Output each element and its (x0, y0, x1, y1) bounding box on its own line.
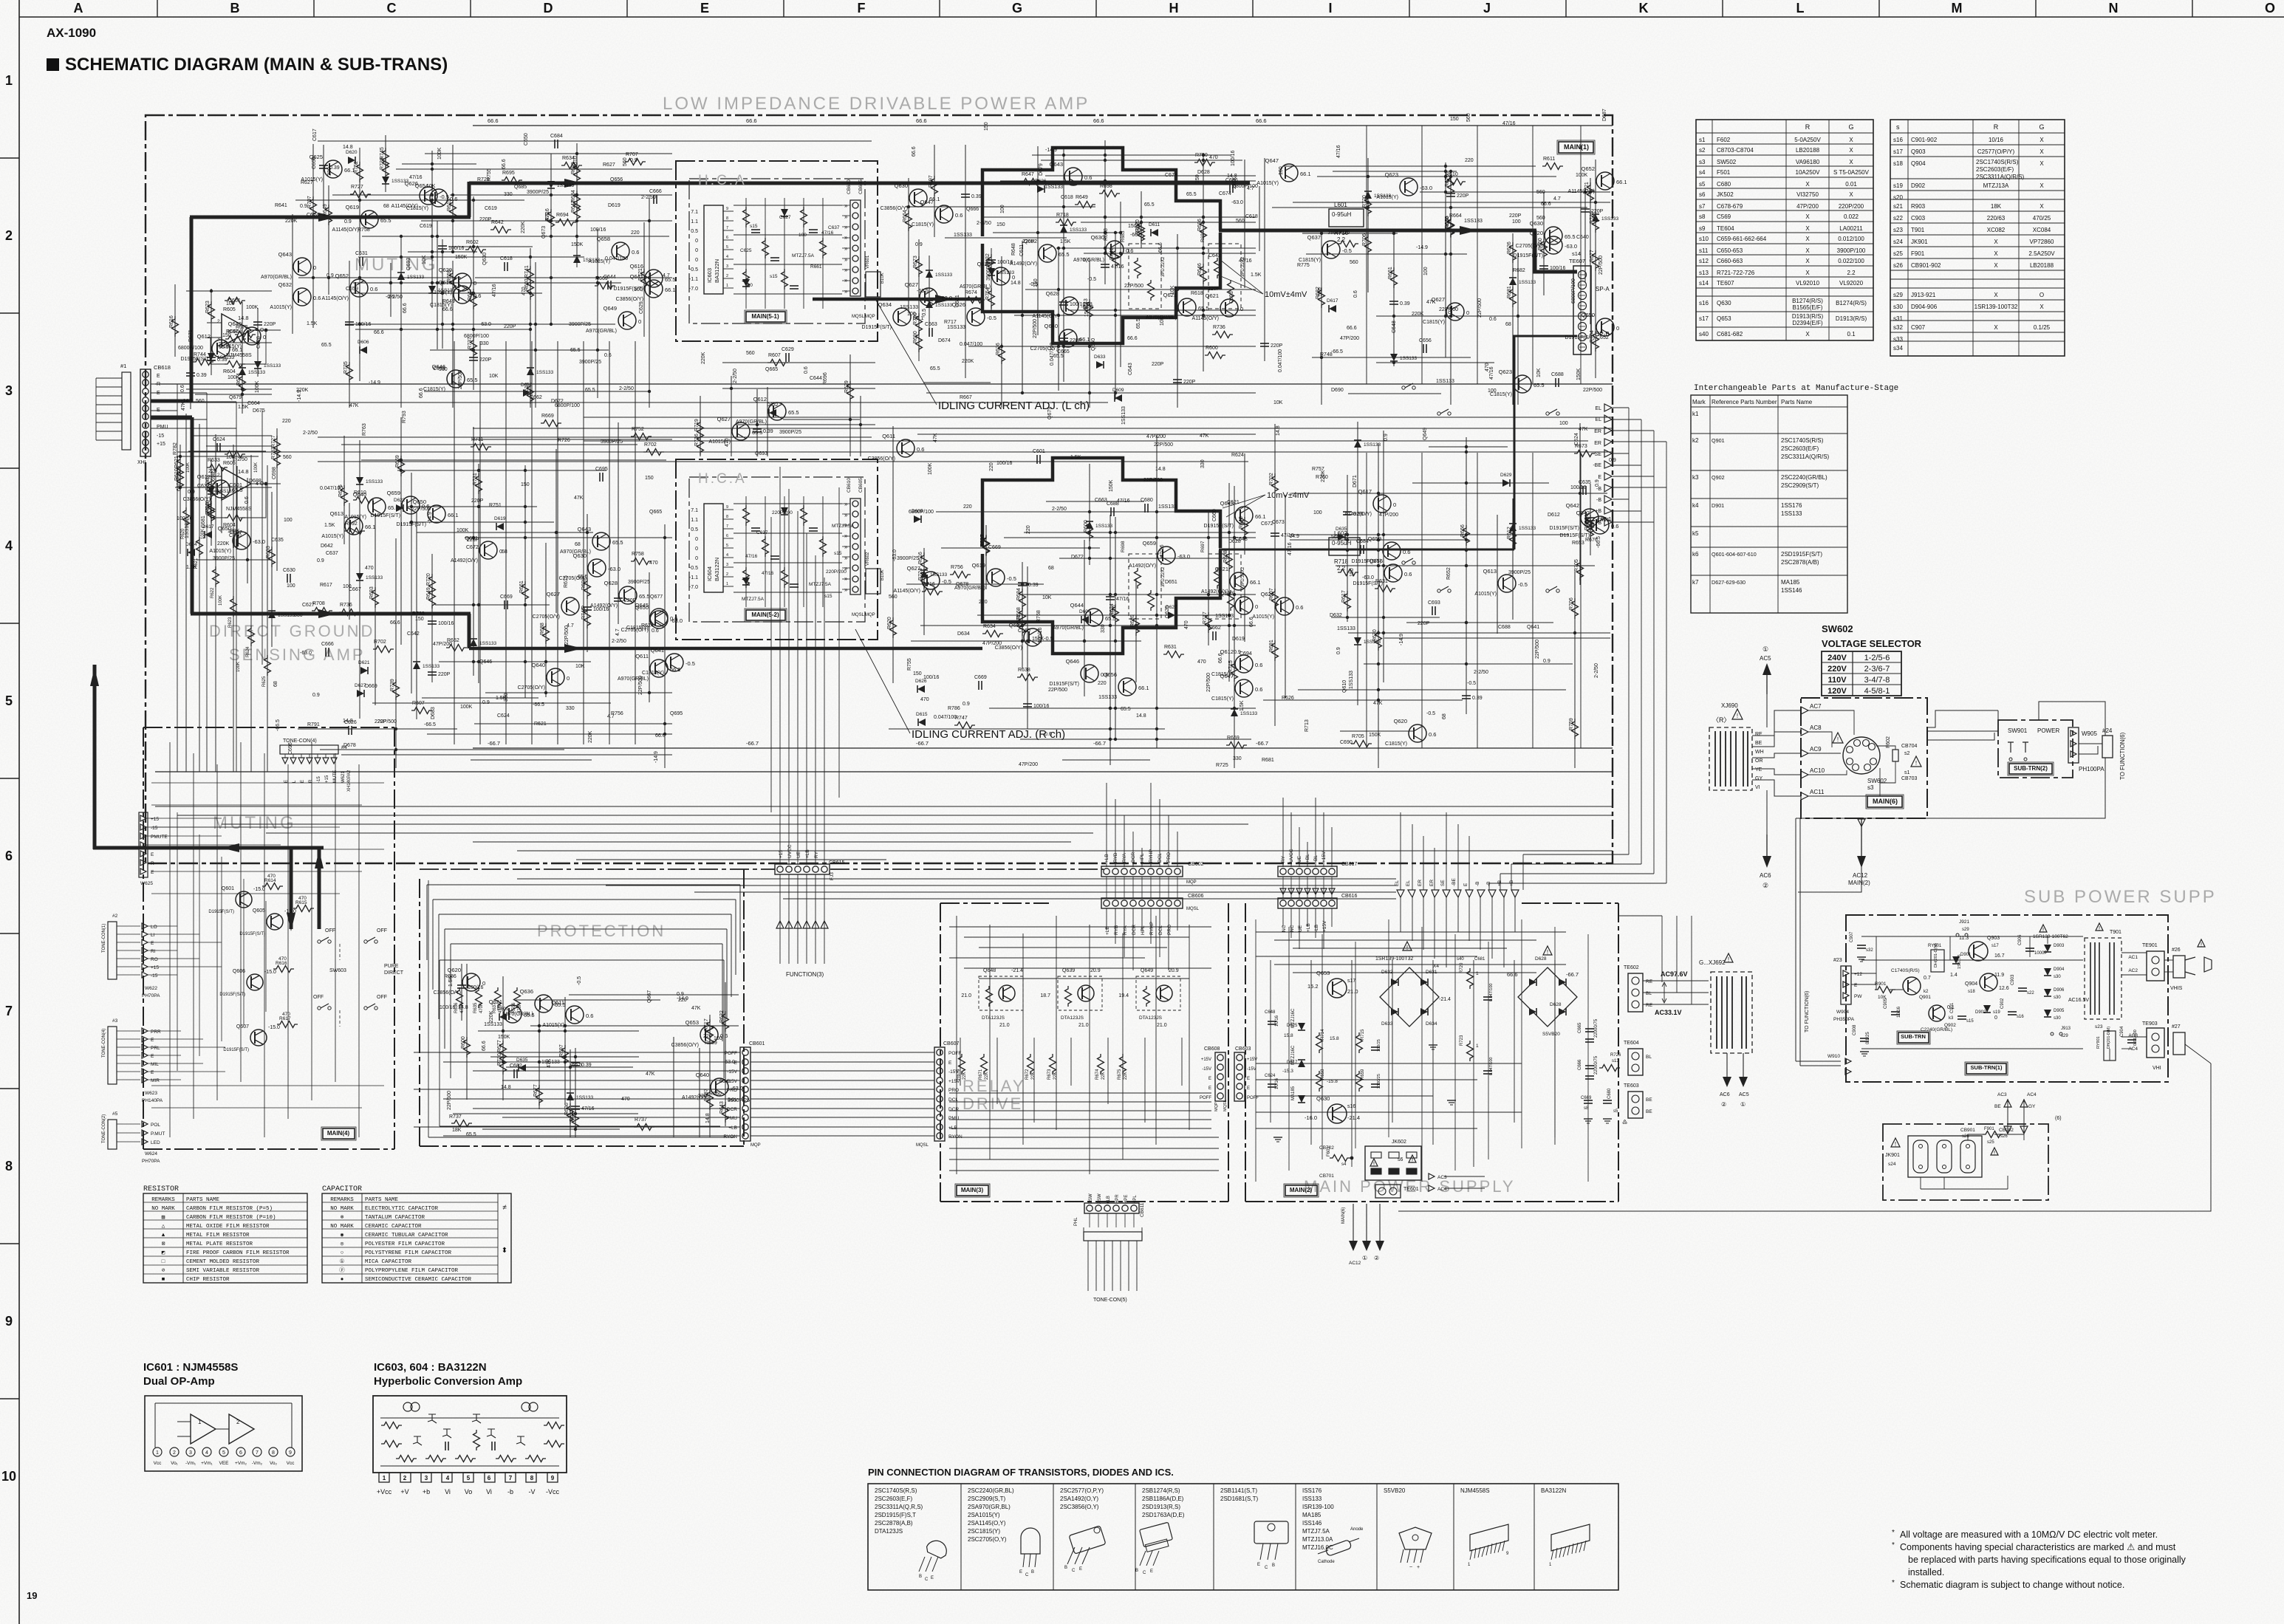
svg-text:+Vcc: +Vcc (377, 1488, 392, 1495)
svg-text:R620: R620 (181, 528, 185, 539)
svg-text:-0.5: -0.5 (685, 660, 695, 667)
package diode drawing (1318, 1527, 1364, 1564)
svg-text:100/16: 100/16 (997, 260, 1013, 265)
resistor R677 (497, 1040, 507, 1061)
svg-text:S T5-0A250V: S T5-0A250V (1833, 169, 1870, 176)
connector CB616 (1278, 894, 1358, 908)
svg-text:-66.7: -66.7 (1566, 971, 1579, 978)
svg-text:2-2/50: 2-2/50 (733, 369, 738, 383)
svg-text:P.MUT: P.MUT (151, 1131, 165, 1137)
svg-text:66.6: 66.6 (1218, 653, 1223, 663)
svg-text:R758: R758 (632, 552, 644, 557)
svg-text:+Vm₂: +Vm₂ (235, 1461, 247, 1466)
resistor R670 (1372, 629, 1382, 651)
resistor R612 (1507, 527, 1517, 548)
svg-text:0.9: 0.9 (963, 702, 970, 707)
svg-text:A1145(O/Y): A1145(O/Y) (1568, 189, 1595, 194)
transistor Q642 (1560, 510, 1619, 538)
svg-text:MAIN(1): MAIN(1) (1564, 143, 1589, 151)
svg-text:s9: s9 (1699, 225, 1706, 232)
svg-text:R775: R775 (1297, 263, 1310, 268)
svg-text:PRL: PRL (151, 1046, 160, 1051)
op-amp IC601b (207, 451, 281, 535)
transistor Q659 (1129, 540, 1190, 569)
svg-text:0.6: 0.6 (1255, 662, 1262, 668)
svg-text:C902: C902 (2000, 998, 2005, 1009)
diode D617 (573, 256, 601, 263)
svg-text:Q901: Q901 (1919, 995, 1931, 1000)
svg-text:C627: C627 (302, 603, 315, 608)
svg-text:-BL: -BL (1313, 855, 1319, 863)
svg-text:65.5: 65.5 (612, 539, 623, 546)
svg-text:SW502: SW502 (1717, 159, 1737, 165)
svg-text:C659: C659 (346, 287, 358, 292)
svg-text:Schematic diagram is subject t: Schematic diagram is subject to change w… (1900, 1580, 2124, 1590)
svg-text:2-2/50: 2-2/50 (977, 221, 991, 226)
svg-text:C659-661-662-664: C659-661-662-664 (1717, 236, 1767, 242)
svg-text:R672: R672 (1025, 1069, 1030, 1080)
svg-text:CB603: CB603 (1235, 1046, 1251, 1052)
svg-text:Q620: Q620 (1394, 718, 1407, 724)
svg-text:220P: 220P (1152, 362, 1164, 367)
svg-text:D1915F(S/T): D1915F(S/T) (239, 932, 265, 936)
svg-text:1: 1 (1476, 1044, 1479, 1049)
svg-text:R626: R626 (1507, 241, 1512, 254)
resistor R647 (1021, 172, 1042, 185)
svg-text:19: 19 (27, 1590, 37, 1601)
svg-text:220P/200: 220P/200 (1839, 203, 1864, 210)
svg-text:100K: 100K (437, 147, 442, 160)
svg-text:RY901: RY901 (2096, 1036, 2101, 1049)
svg-text:M: M (1952, 1, 1963, 16)
svg-text:560: 560 (1318, 287, 1323, 296)
svg-text:3: 3 (5, 383, 13, 398)
svg-text:4: 4 (446, 1475, 450, 1481)
cap C904 (2120, 1026, 2138, 1046)
resistor R674 (236, 373, 246, 394)
svg-text:»: » (844, 234, 848, 241)
diode D902 (1975, 1005, 2000, 1021)
transistor Q613 (321, 510, 375, 539)
switch SW901 POWER (2008, 727, 2059, 761)
svg-text:2-2/50: 2-2/50 (1474, 670, 1488, 675)
capacitor C699 (571, 1106, 595, 1111)
svg-text:C637: C637 (828, 225, 840, 230)
capacitor C620 (987, 260, 1013, 265)
svg-text:HPE: HPE (1124, 1195, 1129, 1204)
svg-text:2SA1492(O,Y): 2SA1492(O,Y) (1060, 1495, 1098, 1502)
svg-text:330: 330 (566, 706, 575, 711)
svg-text:R725: R725 (1216, 763, 1228, 768)
svg-text:R634: R634 (983, 624, 996, 629)
svg-text:-63.0: -63.0 (670, 617, 683, 624)
svg-text:A1015(Y): A1015(Y) (542, 1023, 564, 1028)
svg-text:Q667: Q667 (647, 990, 652, 1003)
AC5 AC6 bottom arrows (1720, 1053, 1749, 1108)
svg-text:66.6: 66.6 (1541, 202, 1551, 207)
connector #24 (2102, 727, 2113, 758)
svg-text:Q901: Q901 (1712, 437, 1725, 444)
svg-text:560: 560 (1536, 216, 1545, 221)
svg-text:Components having special char: Components having special characteristic… (1900, 1542, 2176, 1552)
svg-text:E: E (151, 1070, 154, 1075)
svg-text:E: E (1150, 1569, 1153, 1574)
resistor R618 (205, 500, 215, 521)
svg-text:0.6: 0.6 (1296, 604, 1303, 611)
capacitor C631 (355, 251, 368, 266)
svg-text:47/16: 47/16 (1502, 121, 1516, 126)
svg-text:Q656: Q656 (610, 177, 623, 182)
resistor R661 (519, 580, 529, 602)
svg-text:R664: R664 (1449, 213, 1462, 219)
resistor R745 (380, 147, 389, 168)
svg-text:C690: C690 (1340, 740, 1353, 745)
transistor Q627 (708, 416, 762, 445)
svg-text:-63.0: -63.0 (1565, 243, 1577, 250)
wires power switch (1927, 702, 2105, 754)
svg-text:65.5: 65.5 (524, 1012, 535, 1018)
svg-text:65.5: 65.5 (219, 345, 229, 350)
svg-text:□: □ (162, 1259, 165, 1265)
svg-text:66.1: 66.1 (365, 524, 376, 530)
svg-text:100K: 100K (254, 462, 259, 473)
svg-text:B: B (919, 1575, 922, 1579)
svg-text:R694: R694 (556, 213, 569, 218)
svg-text:8: 8 (530, 1475, 534, 1481)
svg-text:3: 3 (726, 563, 728, 567)
resistor R669 (595, 276, 615, 289)
svg-text:R675: R675 (1118, 1069, 1122, 1080)
svg-text:C697: C697 (230, 530, 242, 535)
svg-text:A1492(O/Y): A1492(O/Y) (1201, 589, 1228, 595)
svg-text:100: 100 (287, 583, 295, 589)
svg-text:D634: D634 (957, 631, 970, 637)
svg-text:E: E (301, 780, 305, 783)
svg-text:Q659: Q659 (1368, 535, 1381, 542)
svg-text:Q658: Q658 (597, 236, 610, 242)
svg-text:k7: k7 (1692, 579, 1699, 586)
svg-text:47K: 47K (181, 401, 186, 411)
svg-text:0.7: 0.7 (1924, 976, 1931, 981)
resistor R613 (524, 383, 534, 404)
svg-text:22K: 22K (1101, 1072, 1106, 1080)
svg-text:W905: W905 (2082, 730, 2097, 737)
svg-text:220: 220 (282, 419, 291, 424)
svg-text:J921: J921 (1959, 919, 1969, 925)
svg-text:X: X (1805, 213, 1810, 220)
svg-text:#3: #3 (112, 1018, 118, 1024)
svg-text:Q646: Q646 (479, 659, 492, 665)
svg-text:+15: +15 (157, 442, 165, 447)
bottom long wire to TE903 (1398, 1044, 2211, 1211)
svg-text:Vcc: Vcc (154, 1461, 163, 1466)
svg-text:Q640: Q640 (696, 1072, 709, 1078)
svg-text:Q607: Q607 (236, 1024, 249, 1029)
svg-text:220P: 220P (1022, 239, 1035, 244)
terminal TE901 (2128, 943, 2164, 981)
svg-text:+B: +B (1595, 521, 1601, 526)
svg-text:R695: R695 (502, 171, 515, 176)
svg-text:1SS133: 1SS133 (1044, 185, 1063, 190)
svg-text:Q637: Q637 (1307, 234, 1321, 241)
svg-text:220/63: 220/63 (1987, 215, 2006, 222)
svg-text:220P: 220P (479, 217, 492, 222)
svg-text:X: X (1805, 236, 1810, 242)
switch SW603 pure direct (313, 928, 404, 1027)
diode D627 (1166, 605, 1177, 619)
resistor R629 (844, 380, 854, 402)
svg-text:C901-902: C901-902 (1911, 137, 1938, 143)
svg-text:R607: R607 (768, 353, 781, 358)
svg-text:E: E (151, 941, 154, 946)
relay driver resistors (957, 1054, 1128, 1080)
svg-text:C666: C666 (649, 189, 662, 194)
transistor Q616 (614, 263, 676, 292)
svg-text:D902: D902 (1975, 1010, 1986, 1015)
MAIN(6) voltage selector circuit box (1801, 698, 1927, 818)
resistor R622 (570, 1109, 579, 1131)
supply rail +66 L (473, 125, 1613, 126)
resistor R631 (1375, 579, 1395, 592)
svg-text:AC11: AC11 (1810, 789, 1825, 795)
transistor Q650 (1565, 312, 1620, 340)
svg-text:22P/500: 22P/500 (1154, 442, 1173, 448)
svg-text:1SR139-100T62: 1SR139-100T62 (2033, 934, 2068, 939)
svg-text:H: H (1169, 1, 1179, 16)
svg-text:R624: R624 (246, 646, 250, 657)
svg-text:Reference Parts Number: Reference Parts Number (1712, 399, 1777, 405)
svg-text:k4: k4 (1692, 502, 1699, 509)
svg-text:SUB POWER SUPP: SUB POWER SUPP (2024, 887, 2217, 907)
svg-text:Q627: Q627 (905, 281, 918, 288)
svg-text:150K: 150K (1128, 224, 1141, 229)
capacitor C600 (1101, 264, 1124, 270)
svg-text:POFF: POFF (1247, 1096, 1259, 1100)
svg-text:Q641: Q641 (1527, 625, 1539, 630)
svg-text:①: ① (340, 1258, 345, 1265)
svg-text:Q613: Q613 (330, 510, 343, 517)
svg-text:Q647: Q647 (1265, 157, 1279, 164)
svg-text:10/16: 10/16 (1275, 1015, 1279, 1027)
svg-text:AC97.6V: AC97.6V (1661, 970, 1688, 978)
svg-text:BE: BE (1646, 1097, 1652, 1103)
svg-text:0.5: 0.5 (691, 229, 698, 234)
svg-text:AC6: AC6 (1760, 872, 1771, 879)
svg-text:VA96180: VA96180 (1796, 159, 1820, 165)
svg-text:2SB1274(R,S): 2SB1274(R,S) (1142, 1487, 1180, 1494)
svg-text:D651: D651 (1165, 580, 1177, 585)
svg-text:◎: ◎ (341, 1241, 344, 1247)
svg-text:C662: C662 (530, 395, 542, 400)
svg-text:4: 4 (726, 255, 728, 259)
svg-text:VP72860: VP72860 (2030, 239, 2054, 245)
svg-text:Q904: Q904 (1911, 160, 1926, 167)
svg-text:!: ! (1728, 956, 1729, 963)
svg-text:B10K: B10K (881, 273, 885, 284)
transistor Q642 (1550, 502, 1612, 531)
svg-text:D683: D683 (431, 707, 436, 719)
svg-text:0.9: 0.9 (915, 242, 923, 247)
resistor R611 (1542, 157, 1563, 170)
svg-text:XJ690: XJ690 (1721, 702, 1738, 709)
resistor R659 (447, 270, 457, 291)
svg-text:C611: C611 (1019, 244, 1025, 256)
svg-text:100K: 100K (246, 305, 259, 310)
svg-text:IDLING CURRENT ADJ. (R ch): IDLING CURRENT ADJ. (R ch) (912, 728, 1065, 741)
svg-text:330: 330 (698, 1094, 707, 1099)
capacitor C676 (1106, 597, 1129, 602)
svg-text:+LB: +LB (1306, 923, 1311, 932)
IC603 diagram (373, 1396, 567, 1495)
svg-text:21.0: 21.0 (961, 993, 971, 998)
svg-text:PRO: PRO (1167, 925, 1172, 935)
resistor R689 (1130, 614, 1140, 636)
svg-text:C666: C666 (321, 642, 334, 647)
svg-text:SP-B: SP-B (1596, 331, 1610, 338)
svg-text:3PD.22X2: 3PD.22X2 (1161, 566, 1166, 587)
svg-text:66.6: 66.6 (488, 117, 499, 124)
muting trace L horizontal (190, 213, 471, 222)
svg-text:-V: -V (529, 1488, 536, 1495)
resistor R720 (1362, 195, 1372, 216)
svg-text:MQSL: MQSL (852, 315, 865, 319)
svg-text:D627-629-630: D627-629-630 (1712, 579, 1746, 586)
svg-text:22K: 22K (1124, 1072, 1128, 1080)
svg-text:1SS133: 1SS133 (423, 664, 440, 669)
MAIN(4) label (323, 1128, 355, 1139)
wires TE602 to transformer XJ692 (1643, 970, 1709, 1016)
svg-text:1SS133: 1SS133 (264, 363, 281, 369)
power supply wires (1256, 908, 1566, 1167)
svg-text:F602: F602 (1886, 736, 1891, 748)
resistor R754 (985, 287, 995, 309)
svg-text:0.6: 0.6 (955, 212, 963, 219)
transistor Q652 (322, 273, 378, 301)
svg-text:R686: R686 (1197, 219, 1203, 231)
svg-text:R706: R706 (1569, 597, 1574, 610)
transistor Q619 (332, 204, 392, 233)
svg-text:D687: D687 (1602, 109, 1607, 121)
svg-text:2SC2705(O,Y): 2SC2705(O,Y) (968, 1536, 1007, 1543)
svg-text:7.1: 7.1 (691, 210, 698, 215)
MAIN(2) bottom arrows (1341, 1204, 1384, 1266)
svg-text:5: 5 (222, 1450, 225, 1456)
svg-text:K: K (1639, 1, 1649, 16)
svg-text:110V: 110V (1827, 676, 1847, 685)
resistor R620 (887, 617, 897, 638)
resistor R607 (411, 701, 432, 714)
svg-text:D628: D628 (1550, 1002, 1562, 1007)
svg-text:9: 9 (726, 505, 728, 510)
connector TONE-CON(1) (102, 914, 160, 998)
resistor R615 (447, 199, 457, 220)
svg-text:-0.5: -0.5 (1518, 581, 1528, 588)
svg-text:RYON: RYON (948, 1134, 963, 1140)
svg-text:E: E (1208, 1077, 1211, 1081)
svg-text:D672: D672 (1071, 555, 1084, 560)
svg-text:R623: R623 (205, 301, 211, 313)
resistor R648 (1239, 516, 1248, 538)
resistor R697 (559, 1044, 569, 1066)
H.C.A MAIN(5-1) components (734, 198, 842, 309)
svg-text:C664: C664 (247, 401, 260, 406)
svg-text:1SS133: 1SS133 (935, 303, 953, 308)
transistor Q611 (868, 433, 925, 462)
interchangeable parts table (1691, 384, 1898, 613)
svg-text:⊠: ⊠ (162, 1241, 165, 1247)
CB601-CB607 harness (750, 1052, 934, 1136)
resistor R702 (1269, 473, 1279, 494)
svg-text:6: 6 (488, 1475, 491, 1481)
svg-text:PH350PA: PH350PA (1833, 1017, 1855, 1022)
svg-text:R616: R616 (169, 315, 174, 328)
svg-text:CB901-902: CB901-902 (1911, 262, 1941, 269)
svg-text:MTZJ7.5A: MTZJ7.5A (832, 524, 855, 529)
svg-text:A1492(O/Y): A1492(O/Y) (451, 558, 478, 563)
resistor R744 (193, 352, 213, 366)
svg-text:0.6: 0.6 (804, 366, 809, 374)
svg-text:E: E (1019, 1570, 1022, 1575)
capacitor C624 (213, 437, 225, 452)
svg-text:R697: R697 (929, 175, 934, 188)
svg-text:R674: R674 (1095, 1069, 1100, 1080)
svg-text:①: ① (1362, 1255, 1367, 1261)
diode D607 (382, 177, 409, 184)
svg-text:»: » (844, 256, 848, 263)
resistor R717 (1203, 611, 1212, 633)
svg-text:1SS133: 1SS133 (947, 325, 965, 330)
transistor Q618 (430, 279, 481, 308)
svg-text:2: 2 (236, 1419, 240, 1425)
output trace R staircase lower (982, 550, 1220, 654)
svg-text:3900P/25: 3900P/25 (569, 322, 591, 327)
emitter resistor block R (1121, 541, 1245, 619)
svg-text:-15: -15 (151, 973, 158, 979)
svg-text:C625: C625 (740, 248, 752, 253)
svg-text:VL92020: VL92020 (1839, 280, 1864, 287)
svg-text:R667: R667 (960, 395, 972, 400)
svg-text:1SS133: 1SS133 (479, 641, 497, 646)
diode D627 (355, 683, 366, 697)
svg-text:MQSL: MQSL (1186, 907, 1200, 911)
svg-text:RYHP: RYHP (1149, 922, 1155, 935)
svg-text:-15V: -15V (727, 1069, 737, 1075)
rotary switch SW602 (1833, 733, 1887, 791)
svg-text:R715: R715 (1228, 660, 1234, 673)
package TO-220 drawing (1064, 1526, 1106, 1573)
svg-text:100: 100 (1313, 510, 1322, 515)
svg-text:POLYSTYRENE FILM CAPACITOR: POLYSTYRENE FILM CAPACITOR (365, 1250, 452, 1256)
svg-text:R621: R621 (534, 722, 547, 727)
svg-text:470K: 470K (518, 1003, 522, 1013)
svg-text:0: 0 (1616, 325, 1619, 332)
svg-text:R659: R659 (447, 270, 452, 282)
svg-text:0.39: 0.39 (971, 194, 982, 199)
svg-text:R638: R638 (1018, 668, 1030, 673)
svg-text:D621: D621 (358, 660, 370, 665)
svg-text:2SC2240(GR/BL): 2SC2240(GR/BL) (1781, 474, 1827, 481)
svg-text:-0.5: -0.5 (689, 566, 698, 571)
svg-text:-66.5: -66.5 (570, 1063, 582, 1068)
svg-text:1: 1 (198, 1419, 202, 1425)
svg-text:R632: R632 (719, 1010, 725, 1023)
zener diodes MTZJ (1282, 1008, 1305, 1103)
svg-text:RI: RI (151, 949, 156, 954)
svg-text:R681: R681 (1262, 758, 1274, 763)
svg-text:RYON: RYON (723, 1134, 737, 1140)
svg-text:3PD.22X2: 3PD.22X2 (1241, 566, 1245, 587)
connector TONE-CON(2) (102, 1111, 165, 1164)
